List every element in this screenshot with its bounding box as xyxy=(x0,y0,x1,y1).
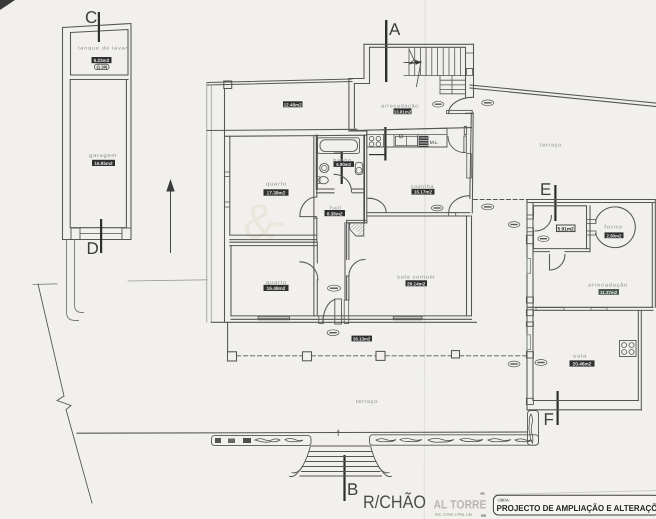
svg-text:(1.30): (1.30) xyxy=(97,65,109,70)
house outer eave line left xyxy=(206,83,208,323)
property boundary diagonal xyxy=(38,284,92,503)
sala comum door arc xyxy=(347,260,365,277)
terrace boundary slanted wall xyxy=(470,85,656,103)
bathroom top wall (strip bottom) xyxy=(317,134,367,136)
title box faint top line xyxy=(494,491,656,495)
value 5.91m2 xyxy=(557,225,576,233)
oval 0.10 right wall bottom xyxy=(482,204,494,210)
quarto1 right wall upper xyxy=(313,136,315,197)
wall arrecadacao2 / sala xyxy=(527,306,653,308)
sala comum left wall lower xyxy=(346,276,348,300)
bidet xyxy=(355,162,362,174)
value 13.81m2 xyxy=(394,108,412,114)
sala comum top nook wall xyxy=(347,219,367,221)
marker B upper tick xyxy=(334,153,341,154)
svg-text:2.80m2: 2.80m2 xyxy=(607,233,622,238)
marker E line xyxy=(554,185,556,221)
wing left wall window teal lower xyxy=(527,335,531,350)
terrace left wall xyxy=(227,322,229,352)
dishwasher hatched xyxy=(419,136,429,147)
bathroom right / kitchen left wall xyxy=(363,135,365,222)
value 29.14m2 xyxy=(406,280,428,286)
svg-text:16.17m2: 16.17m2 xyxy=(414,190,433,195)
kitchen counter xyxy=(367,128,447,147)
column 4 xyxy=(452,351,460,358)
room 5.91 bottom wall xyxy=(534,248,591,250)
marker A lower segment xyxy=(384,127,386,161)
scan crease vertical xyxy=(424,0,425,519)
kitchen door bottom-right arc xyxy=(449,196,470,213)
svg-text:F: F xyxy=(544,410,554,429)
svg-text:A: A xyxy=(389,20,401,39)
entrance door jamb right xyxy=(344,300,349,324)
entrance door leaf xyxy=(335,299,342,324)
marker D line xyxy=(100,219,102,253)
sala comum left wall xyxy=(346,220,348,259)
kitchen top-right door arc xyxy=(448,137,464,153)
oval 0.10 wing corner xyxy=(508,222,520,228)
quarto1 top wall inner xyxy=(225,135,317,138)
quarto1 bottom wall xyxy=(230,234,317,236)
value 16.85m2 xyxy=(92,160,115,166)
corridor left wall xyxy=(313,197,315,242)
stair treads lower flight xyxy=(440,80,466,94)
title box xyxy=(493,495,656,515)
stones squiggles right band xyxy=(376,414,533,443)
corridor right wall xyxy=(344,223,346,300)
svg-text:forno: forno xyxy=(604,225,623,231)
stair block left jog xyxy=(349,78,364,80)
sala right wall xyxy=(637,310,639,400)
driveway line outer xyxy=(67,240,79,321)
balcony strip top wall xyxy=(207,79,352,83)
driveway line inner xyxy=(75,240,84,313)
svg-text:AL TORRE: AL TORRE xyxy=(434,498,487,512)
stone band right xyxy=(370,435,539,445)
specks left of title box xyxy=(481,493,485,495)
quarto1 window sill 2 xyxy=(225,201,230,203)
counter shelf line xyxy=(367,134,447,136)
kitchen door bottom-right jamb xyxy=(449,213,456,216)
marker B upper segment xyxy=(341,152,343,184)
column 3 xyxy=(376,351,385,360)
window in that wall 1 xyxy=(536,308,564,311)
watermark dash xyxy=(270,222,284,227)
arrecadacao bottom wall / kitchen top wall xyxy=(349,128,472,131)
bathroom door arc xyxy=(334,174,352,192)
terrace dashed edge with columns xyxy=(237,355,528,357)
room 5.91 door arc xyxy=(535,216,552,232)
oval 1.20 room591 xyxy=(538,236,549,242)
sala stove xyxy=(620,341,637,357)
fireplace hatch xyxy=(350,223,364,236)
garage door line xyxy=(80,233,122,235)
value 6.23m2 xyxy=(92,57,112,63)
toilet xyxy=(319,177,329,184)
value 12.48m2 xyxy=(283,101,303,107)
stair block left wall xyxy=(363,44,365,78)
svg-text:R/CHÃO: R/CHÃO xyxy=(363,492,426,512)
kitchen top-right door leaf xyxy=(464,136,466,153)
forno circle xyxy=(596,207,636,248)
stair treads upper flight xyxy=(409,49,460,76)
bathroom bottom wall left xyxy=(317,188,335,190)
svg-text:29.14m2: 29.14m2 xyxy=(407,281,426,286)
value 8.38m2 xyxy=(325,210,346,216)
value 11.37m2 xyxy=(599,289,620,295)
value 17.38m2 xyxy=(264,189,289,196)
sala comum right wall xyxy=(466,216,468,316)
quarto2 top wall xyxy=(230,241,317,243)
svg-text:12.48m2: 12.48m2 xyxy=(284,102,303,107)
oval 0.10 arrecadacao xyxy=(433,101,444,107)
stair block right wall xyxy=(465,47,467,97)
svg-text:13.81m2: 13.81m2 xyxy=(394,109,412,114)
stairs left curl xyxy=(289,446,311,477)
window in that wall 2 xyxy=(591,308,607,311)
washbasin xyxy=(320,163,329,172)
sink unit xyxy=(396,136,418,145)
value 20.46m2 xyxy=(570,360,595,367)
svg-text:terraço: terraço xyxy=(540,143,562,149)
svg-text:16.48m2: 16.48m2 xyxy=(267,286,286,292)
value 16.48m2 xyxy=(264,285,289,292)
svg-text:garagem: garagem xyxy=(89,153,117,159)
quarto1 door arc xyxy=(300,197,317,217)
svg-text:sala: sala xyxy=(573,354,587,360)
bathroom left wall xyxy=(316,136,318,189)
svg-text:5.91m2: 5.91m2 xyxy=(558,227,575,233)
entrance door jamb left xyxy=(319,316,324,324)
svg-text:C: C xyxy=(85,8,97,27)
svg-text:6.90m2: 6.90m2 xyxy=(336,162,351,167)
stair block top wall xyxy=(364,43,474,45)
value 6.90m2 xyxy=(334,161,355,167)
wing left wall frame bands xyxy=(526,235,533,244)
wing left wall xyxy=(526,200,528,411)
sala comum window xyxy=(393,316,422,319)
svg-text:B: B xyxy=(347,480,358,499)
stone band corner vertical xyxy=(528,411,539,446)
stairs right curl xyxy=(371,446,393,477)
marker B line xyxy=(343,455,345,501)
kitchen door bottom-left arc xyxy=(369,198,386,212)
stair break line xyxy=(409,50,421,87)
arrecadacao door opening arc xyxy=(449,97,473,113)
ground line left of house xyxy=(128,280,207,281)
arrecadacao door threshold bar xyxy=(447,110,473,113)
svg-text:PROJECTO DE AMPLIAÇÃO E ALTERA: PROJECTO DE AMPLIAÇÃO E ALTERAÇÕ xyxy=(497,503,656,513)
wing right wall upper xyxy=(651,203,653,308)
entrance stairs fan xyxy=(289,430,392,477)
balcony strip bottom wall xyxy=(207,129,357,130)
north arrow xyxy=(170,190,172,253)
right wall window 2 xyxy=(467,154,472,179)
fireplace xyxy=(350,223,364,236)
svg-text:20.46m2: 20.46m2 xyxy=(573,362,592,368)
quarto2 right wall xyxy=(313,242,315,316)
kitchen bottom wall xyxy=(367,212,470,214)
svg-text:OBRA:: OBRA: xyxy=(498,497,510,502)
value 16.17m2 xyxy=(412,189,435,195)
sala bottom wall xyxy=(533,400,638,402)
svg-text:quarto: quarto xyxy=(266,182,287,188)
wing left wall window teal upper xyxy=(527,259,531,274)
svg-text:M.L: M.L xyxy=(430,140,438,146)
quarto1 left wall xyxy=(224,89,226,236)
svg-text:17.38m2: 17.38m2 xyxy=(267,191,286,197)
quarto2 left wall xyxy=(224,235,226,322)
quarto1 window sill 1 xyxy=(225,171,230,173)
wall between tanque and garagem xyxy=(71,79,129,81)
svg-text:11.37m2: 11.37m2 xyxy=(600,290,618,295)
oval 0.20 entrance bottom xyxy=(327,330,339,336)
room 5.91 right wall xyxy=(589,206,591,252)
column 2 xyxy=(303,352,312,361)
marker C line xyxy=(98,12,100,42)
garage door jamb left xyxy=(71,228,80,240)
svg-text:sala comum: sala comum xyxy=(397,275,435,281)
stair direction arrow xyxy=(404,62,419,64)
oval 0.10 entrance top xyxy=(328,285,341,291)
oval 1.20 sala xyxy=(535,360,547,366)
kitchen top-right door jamb xyxy=(464,126,466,134)
arrecadacao left wall xyxy=(348,79,350,129)
house right wall xyxy=(470,113,472,198)
garagem room inner wall xyxy=(70,80,126,228)
svg-text:6.23m2: 6.23m2 xyxy=(94,58,110,63)
svg-text:terraço: terraço xyxy=(356,399,378,405)
marker A line xyxy=(385,20,387,82)
oval 0.10 cozinha xyxy=(431,205,443,211)
oval 0.10 terrace near sala xyxy=(508,361,520,367)
quarto2 window xyxy=(258,316,290,319)
svg-text:arrecadação: arrecadação xyxy=(588,283,628,289)
marker A lower tick xyxy=(369,154,385,155)
oval 0.10 right wall top xyxy=(482,100,494,106)
forno passage xyxy=(587,220,597,224)
svg-text:tanque de lavar: tanque de lavar xyxy=(78,46,128,51)
house bottom wall inner xyxy=(231,315,472,317)
hall left wall (quarto right wall shared) xyxy=(314,217,317,219)
bathroom bottom wall right xyxy=(352,188,364,190)
stair window niche xyxy=(466,53,474,69)
marker F line xyxy=(557,391,559,425)
stone band left xyxy=(212,436,312,446)
svg-text:E: E xyxy=(540,180,551,199)
svg-text:16.85m2: 16.85m2 xyxy=(94,161,113,166)
svg-text:D: D xyxy=(87,239,99,258)
garage outer wall xyxy=(63,24,132,240)
room 5.91 inner walls xyxy=(534,206,587,249)
balcony corner pillar xyxy=(224,81,232,89)
column 1 xyxy=(228,352,237,361)
stove 4 burners xyxy=(383,135,385,148)
quarto2 door arc xyxy=(300,262,318,316)
small step mark xyxy=(337,430,341,437)
entrance door arc xyxy=(323,300,335,324)
terrace bottom edge line xyxy=(77,432,528,433)
svg-text:8.38m2: 8.38m2 xyxy=(327,211,343,216)
garage door jamb right xyxy=(122,228,131,240)
svg-text:Soc. Const. e Proj. Lda: Soc. Const. e Proj. Lda xyxy=(435,512,472,516)
svg-text:36.13m2: 36.13m2 xyxy=(353,337,371,342)
house bottom wall outer xyxy=(211,321,476,323)
property boundary top tick xyxy=(33,283,57,286)
stones squiggles left band xyxy=(215,438,303,443)
terrace dashed edge upper xyxy=(474,199,528,201)
value 36.13m2 xyxy=(352,336,373,342)
tanque de lavar room inner wall xyxy=(71,30,129,76)
bathtub xyxy=(318,138,360,154)
stair landing divider xyxy=(404,75,466,77)
value 2.80m2 xyxy=(605,232,624,238)
wing top wall xyxy=(527,199,655,201)
arrecadacao2 door arc xyxy=(550,255,566,271)
value (1.30) xyxy=(95,64,110,69)
scan corner mark top-left xyxy=(0,0,15,10)
room 5.91 door jamb xyxy=(527,215,534,219)
